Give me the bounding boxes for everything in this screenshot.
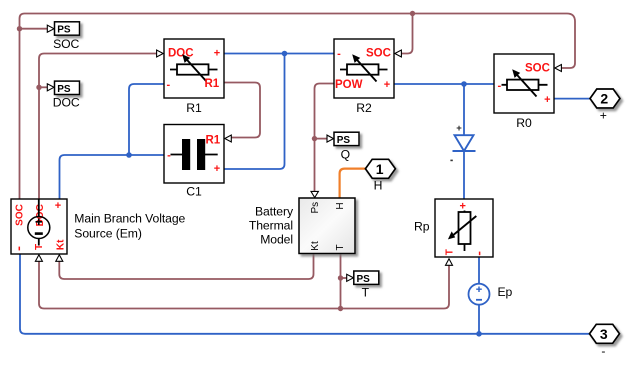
- junction blue diode: [461, 81, 467, 87]
- svg-text:T: T: [444, 249, 455, 255]
- svg-text:Ps: Ps: [310, 202, 321, 214]
- wire R1+ to R2-: [224, 53, 334, 55]
- capacitor C1: [164, 125, 231, 199]
- svg-text:Ep: Ep: [498, 285, 513, 299]
- svg-text:Q: Q: [341, 147, 350, 161]
- junction SOC-R2: [410, 11, 415, 16]
- wire Rp- to Ep: [478, 257, 480, 284]
- wire POW branch to PS3: [315, 138, 328, 140]
- wire SOC net top rail: [20, 14, 576, 200]
- svg-text:SOC: SOC: [366, 48, 391, 60]
- wire R1 to C1 signal: [224, 83, 260, 138]
- wire Ep to bottom rail: [478, 305, 480, 334]
- svg-text:R1: R1: [206, 135, 221, 147]
- wire T branch to PS4: [341, 277, 347, 279]
- svg-text:DOC: DOC: [35, 204, 46, 226]
- PS converter PS3 Q: [327, 132, 359, 161]
- svg-text:T: T: [34, 244, 45, 250]
- wire orange H net: [340, 169, 366, 198]
- svg-text:H: H: [374, 179, 383, 193]
- junction blue C1+: [282, 51, 288, 57]
- svg-text:+: +: [600, 108, 607, 122]
- svg-text:C1: C1: [186, 185, 202, 199]
- svg-text:3: 3: [600, 326, 608, 342]
- svg-text:R1: R1: [205, 78, 220, 90]
- svg-text:Kt: Kt: [310, 241, 321, 251]
- wire diode branch down to Rp: [463, 84, 465, 199]
- wire SOC branch to R2: [401, 14, 413, 54]
- wire T to Rp: [341, 265, 450, 309]
- svg-text:SOC: SOC: [15, 204, 26, 226]
- svg-text:+: +: [456, 123, 462, 134]
- svg-text:R2: R2: [356, 101, 372, 115]
- svg-text:Thermal: Thermal: [249, 219, 293, 233]
- svg-text:Kt: Kt: [55, 239, 66, 250]
- svg-text:T: T: [362, 286, 370, 300]
- PS converter PS4 T: [347, 271, 379, 300]
- svg-text:+: +: [384, 79, 390, 91]
- wire Kt Em to thermal: [59, 254, 313, 279]
- junction SOC-PS1: [17, 26, 22, 31]
- svg-text:Main Branch Voltage: Main Branch Voltage: [74, 212, 185, 226]
- svg-text:T: T: [335, 244, 346, 250]
- svg-text:2: 2: [600, 91, 608, 107]
- Battery Thermal Model block: [249, 191, 355, 253]
- resistor R0: [494, 54, 561, 130]
- wire POW to thermal Ps: [315, 84, 335, 192]
- diode D1: [450, 123, 475, 160]
- svg-text:Rp: Rp: [414, 220, 430, 234]
- svg-text:PS: PS: [357, 274, 371, 285]
- svg-text:PS: PS: [57, 84, 71, 95]
- wire R1- branch: [129, 84, 164, 155]
- svg-text:-: -: [337, 48, 341, 60]
- port 3 minus: [590, 324, 620, 358]
- svg-text:-: -: [166, 79, 170, 91]
- svg-text:PS: PS: [337, 135, 351, 146]
- svg-text:POW: POW: [335, 79, 363, 91]
- wire DOC net: [39, 54, 157, 200]
- svg-text:Source (Em): Source (Em): [74, 227, 142, 241]
- PS converter PS1 SOC: [47, 22, 79, 51]
- svg-text:+: +: [544, 94, 550, 106]
- wire R2+ to R0-: [394, 83, 494, 85]
- port 1 H: [365, 159, 395, 192]
- wire bottom rail Em- to port3: [20, 254, 590, 334]
- junction T-PS4: [338, 275, 343, 280]
- junction T-Em: [338, 306, 343, 311]
- voltage source Ep: [469, 284, 513, 305]
- svg-text:-: -: [167, 150, 171, 162]
- svg-text:H: H: [335, 202, 346, 209]
- svg-text:+: +: [214, 48, 220, 60]
- svg-text:DOC: DOC: [53, 96, 80, 110]
- junction DOC-PS2: [36, 85, 41, 90]
- wire Em+ to C1-: [60, 155, 165, 199]
- svg-text:SOC: SOC: [53, 37, 79, 51]
- wire R0+ to port2: [554, 98, 590, 100]
- svg-text:SOC: SOC: [525, 63, 550, 75]
- port 2 plus: [590, 89, 620, 122]
- svg-text:PS: PS: [57, 25, 71, 36]
- resistor R1: [157, 39, 224, 115]
- wire T to Em: [39, 261, 341, 309]
- wire SOC branch to PS1: [20, 28, 48, 30]
- svg-text:R0: R0: [516, 116, 532, 130]
- resistor R2: [334, 39, 401, 115]
- svg-text:+: +: [214, 163, 220, 175]
- junction POW-PS3: [312, 136, 317, 141]
- voltage source Em block: [11, 199, 186, 261]
- PS converter PS2 DOC: [47, 81, 80, 110]
- svg-text:Battery: Battery: [255, 205, 294, 219]
- junction blue R1-: [126, 152, 132, 158]
- junction blue bottom: [476, 331, 482, 337]
- svg-text:R1: R1: [186, 101, 202, 115]
- wire thermal T down: [340, 254, 342, 309]
- svg-text:-: -: [601, 344, 605, 358]
- wire DOC branch to PS2: [39, 86, 48, 88]
- svg-text:-: -: [497, 80, 501, 92]
- svg-text:Model: Model: [260, 233, 293, 247]
- wire C1+ branch: [224, 54, 285, 170]
- svg-text:1: 1: [376, 161, 384, 177]
- svg-text:+: +: [55, 200, 61, 212]
- variable resistor Rp: [414, 199, 493, 265]
